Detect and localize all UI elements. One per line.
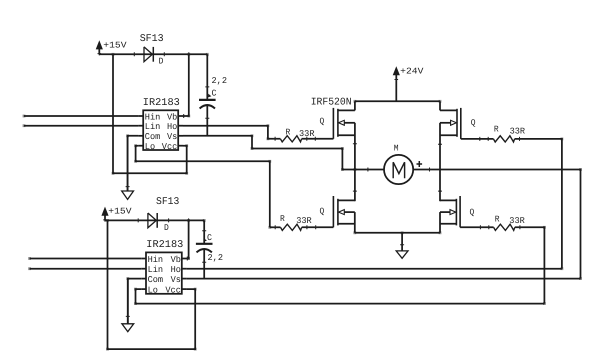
svg-text:33R: 33R [299,129,315,139]
svg-text:IR2183: IR2183 [146,239,183,251]
svg-text:SF13: SF13 [156,196,179,208]
svg-text:SF13: SF13 [140,33,164,45]
svg-text:Lin: Lin [148,265,164,275]
svg-text:Ho: Ho [171,265,181,275]
svg-text:Vs: Vs [167,132,177,142]
svg-text:Com: Com [145,132,161,142]
svg-text:Vcc: Vcc [162,142,178,152]
svg-text:Lo: Lo [145,142,155,152]
svg-text:Vs: Vs [171,275,181,285]
svg-text:R: R [280,214,285,224]
svg-text:C: C [212,89,217,99]
svg-text:C: C [207,233,212,243]
svg-text:Q: Q [320,117,325,127]
svg-text:Lo: Lo [148,285,158,295]
svg-text:33R: 33R [296,216,312,226]
svg-text:Vcc: Vcc [165,285,181,295]
svg-text:D: D [164,223,169,233]
svg-text:Q: Q [320,207,325,217]
svg-text:R: R [495,215,500,225]
svg-text:Vb: Vb [171,255,181,265]
svg-text:Hin: Hin [145,112,161,122]
svg-text:R: R [286,128,291,138]
svg-text:IRF520N: IRF520N [311,97,352,109]
svg-text:Lin: Lin [145,122,161,132]
svg-text:Com: Com [148,275,164,285]
svg-text:2,2: 2,2 [212,76,228,86]
svg-text:33R: 33R [510,126,526,136]
svg-text:IR2183: IR2183 [143,97,180,109]
svg-text:33R: 33R [509,216,525,226]
svg-text:Ho: Ho [167,122,177,132]
svg-text:Vb: Vb [167,112,177,122]
svg-text:Q: Q [471,118,476,128]
svg-text:D: D [159,56,164,66]
svg-text:2,2: 2,2 [208,253,224,263]
svg-text:Hin: Hin [148,255,164,265]
svg-text:M: M [394,143,399,153]
svg-text:R: R [494,125,499,135]
svg-text:Q: Q [470,207,475,217]
svg-text:+24V: +24V [400,66,424,76]
svg-text:+15V: +15V [103,40,127,50]
svg-text:+15V: +15V [108,207,132,217]
